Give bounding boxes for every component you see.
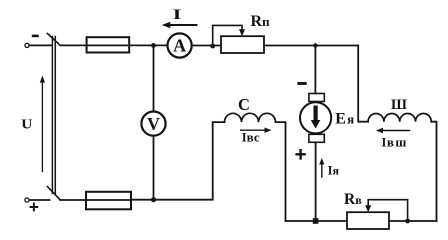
svg-text:Rв: Rв (344, 191, 362, 208)
svg-text:Rп: Rп (251, 13, 271, 30)
svg-text:V: V (147, 114, 160, 134)
svg-text:Iвс: Iвс (242, 130, 260, 145)
svg-text:Ш: Ш (391, 97, 407, 113)
svg-text:A: A (173, 36, 186, 56)
svg-text:I: I (173, 6, 182, 22)
svg-text:Iвш: Iвш (382, 135, 407, 150)
svg-text:Iя: Iя (328, 164, 340, 178)
svg-text:Eя: Eя (335, 111, 354, 128)
svg-text:C: C (238, 95, 250, 114)
svg-text:U: U (21, 117, 33, 132)
